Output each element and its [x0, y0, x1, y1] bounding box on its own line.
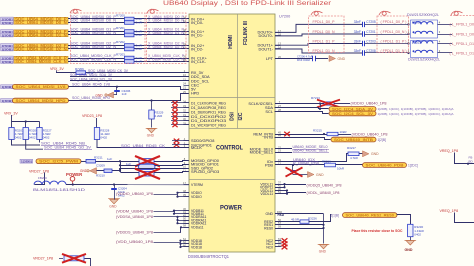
svg-text:R3215: R3215: [313, 129, 322, 133]
svg-text:SOC_UB640_PDB: SOC_UB640_PDB: [366, 163, 404, 167]
svg-text:FPDL1_D0_P: FPDL1_D0_P: [313, 20, 335, 24]
svg-text:VRD27_1P8: VRD27_1P8: [33, 257, 53, 261]
power port circle: [70, 177, 75, 182]
wire lane D1_P: [68, 31, 189, 33]
wire DOUT to row FPDL1_D1_N: [275, 49, 362, 53]
net SOC_UB64_MDSI0_CLK_P lane: [1, 56, 14, 60]
length-match dashed box A: [309, 16, 345, 53]
svg-text:( L_FPDL1_D0_P: ( L_FPDL1_D0_P: [450, 23, 474, 27]
length-match dashed box 2: [147, 13, 187, 64]
svg-text:R3216: R3216: [322, 159, 331, 163]
svg-text:33nF: 33nF: [354, 30, 361, 34]
svg-text:DLW21SZ900HQ2L: DLW21SZ900HQ2L: [407, 12, 440, 17]
length-match dashed box C: [450, 15, 474, 17]
svg-text:1uF: 1uF: [126, 162, 131, 166]
net SOC_UB64_MDSI0_D1_N lane: [1, 33, 14, 37]
DNI component crossed 1: [139, 159, 154, 164]
svg-text:RES0: RES0: [264, 226, 273, 230]
common-mode choke L7201: [411, 41, 438, 58]
no-connect X D1 pin: [171, 124, 189, 126]
twisted-pair symbol C: [451, 11, 463, 15]
svg-text:GND: GND: [371, 152, 379, 156]
net tag oval SOC_UB64_MDSI_HPD: [1, 99, 14, 103]
twisted-pair symbol A: [311, 11, 323, 15]
IC section divider vertical HDMI/FDLINK: [237, 14, 239, 129]
svg-text:DSI: DSI: [230, 112, 236, 121]
svg-text:IN_D0-: IN_D0-: [191, 20, 204, 25]
svg-text:(VDDDS_UB640_1P8: (VDDDS_UB640_1P8: [116, 231, 153, 235]
svg-text:SOC_UB64_MDSI0_D2_N: SOC_UB64_MDSI0_D2_N: [15, 46, 67, 51]
svg-text:FPDL1_D1_P: FPDL1_D1_P: [313, 39, 335, 43]
svg-text:( FPDL1_D0_N ): ( FPDL1_D0_N ): [381, 30, 407, 34]
wire choke out L_FPDL1_D0_N: [438, 34, 453, 36]
svg-text:1[3DB]: 1[3DB]: [21, 160, 32, 164]
wire SCL to oval: [275, 112, 329, 114]
svg-text:1[1]B]: 1[1]B]: [331, 214, 339, 218]
wire SDA to oval: [275, 108, 329, 109]
ground flag IDx: [363, 151, 370, 157]
wire lane D0_P: [68, 18, 189, 20]
junction: [116, 86, 118, 88]
svg-text:VRX_3V: VRX_3V: [50, 67, 64, 71]
net label UB640_MODE_SEL0: [275, 148, 292, 150]
svg-text:( FPDL1_D0_P ): ( FPDL1_D0_P ): [381, 20, 407, 24]
svg-text:( L_FPDL1_D0_N: ( L_FPDL1_D0_N: [450, 32, 474, 36]
wire from VRD27 to ferrite: [35, 173, 45, 185]
svg-text:X_UB64_MDSI_D2_N: X_UB64_MDSI_D2_N: [148, 44, 184, 49]
svg-text:D1_WCXGPIO7_REG: D1_WCXGPIO7_REG: [191, 122, 226, 127]
svg-text:SOC_UB64_MDSI0_D2_N: SOC_UB64_MDSI0_D2_N: [70, 44, 116, 49]
wire SPLD row: [121, 172, 189, 173]
no-connect X D1 pin: [171, 120, 189, 122]
svg-text:SOC_UB64_MDSI0_D0_N: SOC_UB64_MDSI0_D0_N: [15, 20, 67, 25]
junction: [113, 183, 115, 185]
svg-text:1[5DB]: 1[5DB]: [2, 21, 13, 25]
svg-text:VRX_3V: VRX_3V: [4, 111, 18, 115]
svg-text:VDDa11: VDDa11: [191, 226, 204, 230]
svg-text:DNI 0402: DNI 0402: [297, 58, 310, 62]
wire DOUT to row FPDL1_D1_P: [275, 44, 362, 46]
net SOC_UB64_MDSI0_D2_N lane: [1, 47, 14, 51]
svg-text:SOC_UB64_MDSI0_CLK_N: SOC_UB64_MDSI0_CLK_N: [15, 59, 66, 64]
IC section divider 1: [189, 97, 275, 99]
series resistor R7201 N: [125, 33, 135, 37]
wire lane D0_N: [68, 22, 189, 24]
svg-text:SPLD/D_GPIO3: SPLD/D_GPIO3: [191, 169, 219, 174]
wire INTB to oval: [275, 138, 331, 140]
wire PWM to bus: [96, 161, 121, 163]
no-connect X D1 pin: [171, 112, 189, 114]
resistor R3226 49.9R: [275, 221, 300, 223]
common-mode choke L7200: [411, 20, 438, 38]
svg-text:R7206: R7206: [75, 67, 84, 71]
svg-text:0402: 0402: [414, 232, 421, 236]
net SOC_UB64_MDSI0_D0_N lane: [1, 21, 14, 25]
svg-text:VTERM: VTERM: [191, 183, 203, 187]
svg-text:UB640_MODE_SEL1: UB640_MODE_SEL1: [293, 149, 328, 153]
ground: [110, 200, 118, 204]
svg-text:UB640 Dsiplay , DSI to FPD-Li: UB640 Dsiplay , DSI to FPD-Link III Seri…: [163, 0, 331, 7]
series resistor R7200 N: [125, 21, 135, 25]
svg-text:SOC_I2C5_PWM: SOC_I2C5_PWM: [39, 159, 79, 164]
IC left pin names: [184, 18, 190, 20]
svg-text:DS90UB949TRGCTQ1: DS90UB949TRGCTQ1: [188, 254, 230, 259]
svg-text:1[5DB]: 1[5DB]: [2, 33, 13, 37]
svg-text:(VDDM_UB640_1P8: (VDDM_UB640_1P8: [116, 210, 153, 214]
svg-text:POWER: POWER: [220, 205, 242, 212]
power net VDDL_UB640_1P8: [286, 191, 288, 194]
resistor R3203 4.7kR: [11, 122, 13, 128]
series capacitor C7203 33nF: [362, 41, 364, 46]
LPT series capacitor C7206: [275, 58, 313, 60]
capacitor C3209 1uF: [139, 164, 156, 169]
bus vertical: [120, 161, 122, 172]
svg-text:GND: GND: [147, 134, 155, 138]
svg-text:1[2DB], 1[1DC], 1[1DDB], 1[3TD: 1[2DB], 1[1DC], 1[1DDB], 1[3TDB], 1[34DC…: [378, 107, 454, 111]
svg-text:(VDDIO_UB640_1P8: (VDDIO_UB640_1P8: [351, 102, 387, 106]
svg-text:SOC_UB640_INTB: SOC_UB640_INTB: [334, 138, 373, 142]
svg-text:33nF: 33nF: [354, 39, 361, 43]
resistor R3230 1.43kR: [408, 224, 413, 236]
resistor R3229 2.2kR with ground: [150, 99, 152, 101]
svg-text:DOUT0-: DOUT0-: [259, 33, 274, 38]
capacitor to ground on PWM: [97, 170, 121, 172]
svg-text:I2C: I2C: [238, 112, 244, 120]
svg-text:GND: GND: [405, 248, 413, 252]
svg-text:SOC_UB64_MDSI0_D1_N: SOC_UB64_MDSI0_D1_N: [70, 30, 116, 35]
net SOC_UB64_MDSI0_D2_P lane: [1, 44, 14, 48]
IC section divider 3: [189, 179, 275, 181]
twisted-pair symbol 1: [70, 9, 82, 13]
svg-text:SOC_UB64_RD45_HPD: SOC_UB64_RD45_HPD: [72, 96, 110, 100]
wire RES to R3230: [397, 215, 411, 225]
svg-text:VDD18: VDD18: [191, 245, 202, 249]
svg-text:C3209: C3209: [96, 164, 105, 168]
svg-text:Place this resistor close to S: Place this resistor close to SOC: [352, 229, 404, 233]
wire lane D2_P: [68, 45, 189, 47]
wire lane D2_N: [68, 48, 189, 50]
wire MOSI row: [121, 161, 189, 162]
svg-text:R_UB640_PDB: R_UB640_PDB: [293, 161, 319, 165]
wire RX_3V: [56, 70, 58, 72]
bus RES to ground: [323, 214, 325, 244]
wire R3227 stub: [39, 140, 41, 143]
svg-text:1[2]B]: 1[2]B]: [378, 138, 386, 142]
series capacitor C7208 33nF: [362, 50, 364, 55]
svg-text:0402: 0402: [15, 136, 22, 140]
capacitor C3204 10nF: [114, 185, 116, 189]
ground flag LPT: [329, 56, 336, 62]
svg-text:POWER: POWER: [66, 172, 83, 177]
svg-text:SOC_UB64_MDSI0_D1_N: SOC_UB64_MDSI0_D1_N: [15, 32, 67, 37]
svg-text:0mR: 0mR: [136, 21, 143, 25]
svg-text:10kR: 10kR: [337, 167, 345, 171]
resistor R3227 1.5kR: [39, 122, 41, 128]
resistor R7206 0mR: [76, 71, 86, 75]
wire lane CLK_N: [68, 61, 189, 63]
svg-text:DOUT1-: DOUT1-: [259, 46, 274, 51]
wire RES1: [275, 224, 324, 226]
IC section divider 2: [189, 128, 275, 130]
svg-text:VDDIO: VDDIO: [191, 195, 202, 199]
svg-text:GND: GND: [319, 250, 327, 254]
svg-text:R3211: R3211: [94, 155, 103, 159]
svg-text:VREQ_1P8: VREQ_1P8: [440, 149, 459, 153]
svg-text:INTB: INTB: [264, 135, 273, 140]
wire PDB: [275, 164, 325, 166]
twisted-pair symbol 2: [147, 9, 159, 13]
svg-text:( FPDL1_D1_P ): ( FPDL1_D1_P ): [381, 39, 407, 43]
no-connect X REM_INTB: [284, 132, 290, 137]
wire GND pad to bus: [275, 213, 324, 215]
wire lane CLK_P: [68, 58, 189, 60]
wire 5V: [69, 87, 189, 90]
no-connect X D1 pin: [171, 107, 189, 109]
series resistor R7200 P: [125, 17, 135, 21]
svg-text:SCL: SCL: [265, 109, 273, 114]
svg-text:X_UB64_MDSI_CLK_N: X_UB64_MDSI_CLK_N: [148, 57, 184, 62]
svg-text:SOC_I2C4_SCL_3V: SOC_I2C4_SCL_3V: [332, 112, 374, 116]
svg-text:VRD27_1P8: VRD27_1P8: [29, 170, 49, 174]
svg-text:U7200: U7200: [279, 14, 290, 18]
svg-text:PDB: PDB: [265, 162, 273, 167]
svg-text:C7203: C7203: [366, 39, 376, 43]
svg-text:R7201: R7201: [116, 26, 125, 30]
wire REM_INTB: [275, 134, 327, 136]
length-match dashed box B: [377, 16, 409, 53]
svg-text:0402: 0402: [100, 136, 107, 140]
svg-text:X_UB64_MDSI_D1_N: X_UB64_MDSI_D1_N: [148, 30, 184, 35]
no-connect X D1 pin: [171, 102, 189, 104]
svg-text:IN_CLK-: IN_CLK-: [191, 59, 207, 64]
svg-text:C7205: C7205: [366, 20, 376, 24]
ground flag PDB: [308, 172, 315, 178]
wire HPD: [69, 94, 189, 101]
svg-text:IN_D1-: IN_D1-: [191, 32, 204, 37]
series capacitor C7205 33nF: [362, 22, 364, 27]
svg-text:4.7kR: 4.7kR: [350, 156, 359, 160]
svg-text:C7201: C7201: [366, 30, 376, 34]
power net VDDQ5_UB640_1P8: [284, 184, 286, 187]
svg-text:LPT: LPT: [266, 56, 274, 61]
svg-text:R7200: R7200: [116, 13, 125, 17]
svg-text:R7203: R7203: [116, 52, 125, 56]
net SOC_UB64_MDSI0_CLK_N lane: [1, 60, 14, 64]
svg-text:SOC_UB64_MDSI0_D0_N: SOC_UB64_MDSI0_D0_N: [70, 18, 116, 23]
wire DDC_SDA: [70, 76, 189, 78]
net SOC_UB64_MDSI0_D1_P lane: [1, 30, 14, 34]
svg-text:MODE_SEL1: MODE_SEL1: [250, 150, 273, 155]
svg-text:1[3DB]: 1[3DB]: [2, 85, 13, 89]
net tag oval SOC_I2C5_PWM: [20, 159, 33, 163]
svg-text:0402: 0402: [43, 136, 50, 140]
ground R3230: [406, 241, 414, 245]
svg-text:HPD: HPD: [191, 91, 199, 96]
svg-text:SOC_UB64_MDSI_HPD: SOC_UB64_MDSI_HPD: [16, 98, 66, 103]
crossed DNI capacitor on PDB: [292, 164, 294, 166]
svg-text:33nF: 33nF: [354, 20, 361, 24]
svg-text:1[2DC]: 1[2DC]: [408, 164, 418, 168]
no-connect X on GPIO pins: [174, 139, 180, 143]
svg-text:SOC_UB64_MDSI_1V8: SOC_UB64_MDSI_1V8: [16, 84, 67, 89]
serializer U7200 body: [189, 14, 275, 252]
svg-text:0mR: 0mR: [136, 33, 143, 37]
capacitor C3206 1nF: [116, 87, 118, 91]
VRX_3V rail wire: [11, 115, 13, 122]
svg-text:1[5DB]: 1[5DB]: [2, 60, 13, 64]
wire choke out L_FPDL1_D0_P: [438, 24, 453, 26]
series capacitor C7201 33nF: [362, 31, 364, 36]
svg-text:(VDD_UB640_1P8: (VDD_UB640_1P8: [116, 240, 153, 244]
net SOC_UB64_MDSI0_D0_P lane: [1, 17, 14, 21]
svg-text:1[5DB]: 1[5DB]: [2, 47, 13, 51]
svg-text:1nF: 1nF: [122, 92, 127, 96]
wire DOUT to row FPDL1_D0_N: [275, 34, 362, 36]
net label UB640_MODE_SEL1: [275, 152, 292, 154]
svg-text:SOC_UB64_MDSI0_CLK_N: SOC_UB64_MDSI0_CLK_N: [70, 57, 116, 62]
series resistor R7203 P: [125, 56, 135, 60]
resistor R3228 11.4kR: [96, 118, 98, 128]
twisted-pair symbol B: [379, 11, 391, 15]
svg-text:GND: GND: [109, 205, 117, 209]
wire choke out L_FPDL1_D1_N: [438, 52, 453, 54]
net oval SOC_I2C4_SCL_3V: [329, 111, 376, 116]
svg-text:(VDDSA_UB640_1P8: (VDDSA_UB640_1P8: [116, 215, 153, 219]
svg-text:MCLK: MCLK: [191, 145, 202, 150]
svg-text:49.9R: 49.9R: [291, 218, 300, 222]
svg-text:VDDL11: VDDL11: [260, 192, 273, 196]
wire R3203 to net NB: [12, 140, 41, 146]
svg-text:R3217: R3217: [347, 146, 356, 150]
crossed DNI component bottom left: [59, 258, 63, 260]
svg-text:1uF: 1uF: [107, 157, 112, 161]
ground RES bus: [319, 245, 327, 249]
svg-text:HDMI: HDMI: [228, 35, 234, 49]
series resistor R7203 N: [125, 60, 135, 64]
svg-text:SOC_UB64_RD45_GD_3V: SOC_UB64_RD45_GD_3V: [44, 145, 91, 149]
wire IDx pulldown: [275, 154, 349, 162]
svg-text:GND: GND: [316, 173, 324, 177]
net oval SOC_I2C4_SDA_3V: [329, 107, 376, 112]
series resistor R7202 N: [125, 47, 135, 51]
wire MISO row: [121, 165, 189, 166]
svg-text:0mR: 0mR: [136, 60, 143, 64]
wire DDC_SCL: [70, 80, 189, 82]
svg-text:1[3DB]: 1[3DB]: [2, 99, 13, 103]
svg-text:(VDDL_UB640_1P8: (VDDL_UB640_1P8: [307, 191, 340, 195]
svg-text:10kR: 10kR: [340, 130, 348, 134]
svg-text:GND: GND: [338, 57, 346, 61]
wire RES0: [275, 228, 324, 230]
resistor R3204 4.7kR: [25, 122, 27, 128]
series resistor R7202 P: [125, 44, 135, 48]
wire choke out L_FPDL1_D1_P: [438, 43, 453, 45]
net oval SOC_UB640_INTB: [331, 137, 376, 142]
svg-text:(VDDIO_UB640_1P8: (VDDIO_UB640_1P8: [352, 132, 388, 136]
wire VTERM: [66, 184, 189, 186]
svg-text:IN_D2-: IN_D2-: [191, 46, 204, 51]
svg-text:0402: 0402: [29, 136, 36, 140]
no-connect X D1 pin: [171, 116, 189, 118]
wire lane D1_N: [68, 34, 189, 36]
svg-text:(VDDIO_UB640_1P8: (VDDIO_UB640_1P8: [116, 192, 153, 196]
svg-text:GND: GND: [265, 212, 273, 216]
DNI component crossed 2: [139, 171, 154, 176]
svg-text:33nF: 33nF: [354, 49, 361, 53]
svg-text:( L_FPDL1_D1_N: ( L_FPDL1_D1_N: [450, 51, 474, 55]
svg-text:(VDDQ5_UB640_1P8: (VDDQ5_UB640_1P8: [307, 183, 342, 187]
svg-text:R3210: R3210: [96, 173, 105, 177]
wire R3204 to net GD: [26, 140, 43, 150]
svg-text:BLM18SL181SH1D: BLM18SL181SH1D: [33, 188, 86, 192]
IC right pin names: [275, 32, 281, 34]
net oval SOC_UB640_PDB: [363, 163, 407, 168]
svg-text:NC0: NC0: [266, 245, 273, 249]
svg-text:R7202: R7202: [116, 40, 125, 44]
svg-text:FDLINK III: FDLINK III: [243, 20, 249, 44]
net tag oval SOC_UB64_MDSI_1V8: [1, 85, 14, 89]
length-match dashed box 1: [71, 13, 146, 64]
series resistor R7201 P: [125, 30, 135, 34]
svg-text:SOC_UB640_RES2_RES0: SOC_UB640_RES2_RES0: [346, 213, 395, 217]
svg-text:VRD23_1P8: VRD23_1P8: [82, 114, 102, 118]
svg-text:DLW21SZ900HQ2L: DLW21SZ900HQ2L: [408, 57, 441, 62]
no-connect X NC pins: [275, 240, 282, 242]
wire MCLK pulled up: [97, 140, 189, 148]
svg-text:( L_FPDL1_D1_P: ( L_FPDL1_D1_P: [450, 42, 474, 46]
svg-text:SOC_UB64_RD45_1V8: SOC_UB64_RD45_1V8: [72, 83, 110, 87]
svg-text:VREQ_1P8: VREQ_1P8: [440, 209, 459, 213]
svg-text:FB200: FB200: [38, 176, 47, 180]
wire DOUT to row FPDL1_D0_P: [275, 24, 362, 32]
svg-text:0mR: 0mR: [136, 47, 143, 51]
svg-text:CONTROL: CONTROL: [216, 144, 243, 151]
svg-text:X_UB64_MDSI_D0_N: X_UB64_MDSI_D0_N: [148, 18, 184, 23]
svg-text:FPDL1_D0_N: FPDL1_D0_N: [313, 30, 335, 34]
svg-text:2.2kR: 2.2kR: [155, 114, 164, 118]
wire SSD row: [121, 168, 189, 170]
svg-text:1[2DB], 1[1DC], 1[1DDB], 1[3TD: 1[2DB], 1[1DC], 1[1DDB], 1[3TDB], 1[34DC…: [378, 112, 454, 116]
